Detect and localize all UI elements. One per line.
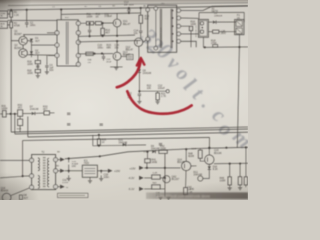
- resistor R20 100K: [35, 69, 40, 72]
- svg-text:1N4004: 1N4004: [214, 16, 223, 18]
- node bottom rail j2: [238, 46, 240, 48]
- node bus B j1: [89, 35, 91, 37]
- wire Q1 to D1: [27, 40, 31, 42]
- wire into Q1 base: [11, 40, 19, 42]
- wire out2 to IC1: [65, 170, 83, 172]
- wire loop left: [198, 13, 200, 20]
- connector arrow in2: [139, 176, 144, 180]
- wire T2 in 1: [0, 159, 30, 161]
- transformer T1 body: [148, 5, 177, 52]
- node top bus junction D: [128, 7, 130, 9]
- led D11: [198, 176, 203, 181]
- wire T1 inner: [155, 10, 157, 46]
- node long rail j3: [225, 147, 227, 149]
- wire R44 to vert: [160, 188, 165, 190]
- svg-text:1W: 1W: [88, 62, 92, 64]
- terminal T1 right 4: [177, 32, 181, 36]
- node bus C j1: [116, 40, 118, 42]
- wire D10 down: [203, 170, 209, 179]
- wire top bus to T3: [60, 10, 62, 20]
- wire R12 to Q11: [102, 22, 114, 24]
- wire Q13 emitter: [116, 60, 118, 67]
- tap T1 sec 2: [172, 17, 174, 19]
- wire long rail to right: [65, 147, 248, 159]
- transformer T1 winding secondary: [170, 9, 172, 48]
- wire rail y163.8: [214, 162, 248, 165]
- transistor Q12 BEL47: [134, 38, 142, 46]
- resistor R2 470R: [10, 22, 13, 28]
- terminal T2 left 1: [30, 158, 34, 162]
- wire R50 gnd: [239, 185, 241, 187]
- transistor Q11 BEL47: [113, 19, 121, 27]
- connector arrow out4: [108, 169, 113, 173]
- node bus3 tap: [98, 134, 100, 136]
- wire top to R13: [140, 8, 142, 15]
- wire bus4: [23, 137, 210, 140]
- resistor R50: [239, 164, 241, 177]
- node rail53 j1: [93, 53, 95, 55]
- node IC1 out j: [100, 170, 102, 172]
- node R12 junction: [102, 22, 104, 24]
- svg-text:+13V: +13V: [129, 166, 135, 170]
- wire J2 to R2: [8, 24, 10, 26]
- node R11 junction: [89, 22, 91, 24]
- wire D5 down: [138, 73, 140, 92]
- svg-text:R34: R34: [17, 128, 22, 130]
- svg-text:0.68uF: 0.68uF: [105, 15, 113, 18]
- resistor R21 2K7: [157, 91, 159, 93]
- wire T1 tap5 down: [181, 41, 197, 47]
- transformer T2 winding s: [48, 158, 50, 187]
- connector arrow in3: [139, 187, 144, 191]
- wire y145 rail: [93, 144, 146, 147]
- wire relay to D6: [208, 21, 212, 23]
- terminal T1 right 3: [177, 24, 181, 28]
- ground G5: [156, 101, 160, 103]
- wire bus1: [11, 127, 248, 132]
- wire top rail: [8, 3, 248, 6]
- wire R13 to C14: [140, 23, 142, 30]
- svg-text:B12: B12: [65, 17, 70, 19]
- tap T1 sec 1: [172, 10, 174, 12]
- capacitor C2 100n: [26, 21, 28, 22]
- svg-text:2x115V 50/60Hz 2x15V: 2x115V 50/60Hz 2x15V: [160, 26, 162, 46]
- wire bus3 drop: [92, 135, 94, 146]
- wire R14 bottom: [102, 35, 104, 36]
- node rail junction: [128, 12, 130, 14]
- terminal T1 inner top: [154, 7, 158, 11]
- capacitor C32 2u2: [68, 171, 70, 173]
- terminal T3 right 2: [76, 31, 80, 35]
- node R41 top: [146, 151, 148, 153]
- wire T2 out 1 stub: [58, 159, 60, 161]
- terminal T1 left top: [146, 8, 150, 12]
- terminal T2 right 1: [54, 158, 58, 162]
- transistor Q1 BC547: [19, 36, 28, 45]
- svg-text:+15V: +15V: [114, 169, 120, 173]
- svg-text:BD136: BD136: [214, 152, 222, 155]
- node out2 j1: [68, 170, 70, 172]
- svg-text:8.2K: 8.2K: [213, 168, 218, 171]
- svg-text:150R: 150R: [160, 148, 166, 151]
- fuse F1 element 2: [236, 28, 242, 34]
- svg-text:250V: 250V: [221, 33, 227, 35]
- wire R17 right: [219, 31, 236, 33]
- svg-text:BD135: BD135: [177, 161, 185, 164]
- wire regulator rail: [139, 90, 166, 92]
- wire fuse bottom: [238, 35, 240, 47]
- wire D1 to D2: [30, 42, 32, 51]
- wire T1 tap4 to relay: [181, 33, 199, 35]
- svg-text:IN: IN: [0, 16, 3, 18]
- ground G3: [114, 67, 118, 69]
- node C31 top: [68, 157, 70, 159]
- transistor Q16: [2, 193, 11, 202]
- svg-text:100K: 100K: [27, 72, 33, 75]
- svg-text:1.2K: 1.2K: [153, 173, 158, 175]
- transformer T1 winding primary: [159, 9, 161, 48]
- svg-text:63V: 63V: [49, 69, 54, 72]
- svg-text:100u: 100u: [98, 47, 104, 50]
- wire IC1 gnd pin: [89, 177, 91, 180]
- transistor Q13 BEL47: [113, 52, 121, 60]
- node long rail j2: [208, 147, 210, 149]
- svg-text:T2: T2: [42, 151, 45, 154]
- capacitor C3: [36, 65, 39, 67]
- wire R1 top: [10, 10, 12, 11]
- label box 1N4148: [127, 54, 134, 59]
- capacitor C19: [103, 54, 105, 57]
- ground G6: [88, 180, 92, 182]
- connector J2 AUX: [0, 21, 8, 28]
- wire Q14 collector: [185, 149, 187, 161]
- connector J1 LINE: [0, 11, 8, 18]
- connector arrow out1: [60, 157, 65, 161]
- resistor R19 100K: [37, 55, 39, 60]
- node mid vert j2: [164, 177, 166, 179]
- wire IC1 out: [97, 170, 108, 172]
- svg-text:A1: A1: [144, 4, 147, 7]
- wire R32 to D7: [23, 113, 32, 115]
- wire relay to R17: [208, 31, 212, 33]
- ground G1: [36, 75, 40, 77]
- svg-text:100R: 100R: [2, 107, 8, 110]
- wire Q11 collector: [116, 13, 118, 19]
- wire R16 down: [190, 31, 192, 48]
- wire Q2 emitter: [27, 54, 55, 57]
- svg-text:-5.1V: -5.1V: [128, 187, 134, 191]
- svg-text:BC547: BC547: [14, 47, 22, 50]
- relay K1 contact 1: [200, 22, 203, 25]
- wire rail y13.5: [61, 13, 141, 14]
- watermark dark bar bottom right: [146, 192, 248, 199]
- wire D6 to fuse: [217, 21, 237, 23]
- node bus B j2: [102, 35, 104, 37]
- wire Q14 emitter: [185, 171, 187, 188]
- resistor R31 100R: [2, 111, 6, 117]
- node R51 top: [245, 146, 247, 148]
- fuse F1 element 1: [236, 21, 242, 27]
- svg-text:100R: 100R: [220, 179, 226, 182]
- red annotation arrow head: [137, 58, 144, 66]
- capacitor C14 10n: [139, 30, 142, 32]
- transformer T2 winding p1: [38, 158, 40, 171]
- label box spec: [58, 193, 89, 197]
- wire bus2: [15, 129, 248, 134]
- transformer T2 core: [43, 157, 45, 188]
- wire R19 to R20: [37, 64, 39, 70]
- wire R35 bottom: [98, 144, 100, 147]
- resistor R44 820: [152, 185, 161, 189]
- resistor R41 100E: [146, 163, 148, 168]
- resistor R34 820: [18, 119, 23, 126]
- svg-text:2K2: 2K2: [18, 107, 23, 110]
- resistor R43 1K2: [152, 175, 161, 179]
- terminal T2 right 2: [54, 169, 58, 173]
- wire T1 tap3 to R16: [181, 25, 190, 27]
- terminal T3 right 4: [76, 53, 80, 57]
- terminal T1 right 2: [177, 16, 181, 20]
- transformer T2 winding p2: [38, 176, 40, 189]
- wire node bus y20: [8, 19, 57, 21]
- terminal T1 left bottom: [146, 37, 150, 41]
- diode D6 1N4004: [213, 21, 216, 24]
- wire R20 down: [37, 73, 39, 75]
- wire J1 to R1: [8, 13, 10, 15]
- wire Q1 to Q2: [22, 45, 24, 49]
- tap T1 sec 4: [172, 33, 174, 35]
- node Q15 coll j: [208, 147, 210, 149]
- svg-text:2.2uF: 2.2uF: [62, 182, 68, 184]
- resistor R35 10R: [98, 135, 100, 139]
- svg-text:BRUCKE 220: BRUCKE 220: [196, 25, 198, 37]
- wire main top bus: [8, 6, 249, 10]
- svg-text:1N4148: 1N4148: [143, 72, 152, 75]
- red annotation swoosh curve: [127, 91, 191, 113]
- resistor R11 100R: [86, 22, 93, 25]
- wire vertical link: [26, 10, 28, 21]
- node long rail j1: [99, 155, 101, 157]
- diode D10 zener: [208, 164, 210, 166]
- diode D5 1N4148: [138, 69, 141, 72]
- wire R48 top: [199, 149, 201, 151]
- svg-text:16V: 16V: [72, 166, 77, 168]
- node regulator junction: [138, 90, 140, 92]
- wire relay bottom: [202, 37, 204, 47]
- resistor R49 100R: [229, 164, 231, 177]
- svg-text:10K: 10K: [147, 87, 152, 90]
- relay K1 pin: [202, 27, 204, 29]
- svg-text:100E: 100E: [151, 161, 157, 164]
- regulator IC1 7805: [82, 165, 97, 177]
- svg-text:BEL47: BEL47: [123, 23, 131, 26]
- svg-text:470R: 470R: [14, 24, 20, 27]
- transistor Q15 BD136: [205, 155, 214, 164]
- wire right long vertical: [237, 47, 239, 148]
- svg-text:C0: C0: [99, 6, 102, 8]
- svg-text:1N4148: 1N4148: [30, 108, 39, 111]
- svg-text:820R: 820R: [188, 155, 194, 158]
- svg-text:820: 820: [153, 183, 158, 185]
- wire T3 to R11: [80, 22, 86, 24]
- terminal T1 inner bottom: [154, 46, 158, 50]
- svg-text:820: 820: [145, 18, 150, 21]
- wire R51 gnd: [245, 185, 247, 187]
- wire bus3: [28, 132, 248, 137]
- node in1 j2: [164, 167, 166, 169]
- wire R49 gnd: [229, 185, 231, 188]
- wire T2 in 2 left: [0, 176, 23, 178]
- wire bottom rail right: [203, 46, 248, 48]
- wire T1 tap1 to rail: [181, 6, 248, 11]
- resistor R1 1K2: [10, 11, 13, 17]
- node bus B j3: [116, 35, 118, 37]
- wire R2 top: [10, 20, 12, 22]
- svg-text:BEL47: BEL47: [126, 49, 134, 52]
- wire left long vertical: [10, 28, 12, 132]
- wire T2 out 3 stub: [58, 186, 60, 188]
- terminal T3 left 2: [55, 43, 59, 47]
- resistor R18: [213, 45, 218, 48]
- svg-text:BD433: BD433: [1, 190, 9, 193]
- resistor R48 820R: [198, 150, 202, 158]
- svg-text:1K: 1K: [96, 15, 99, 18]
- terminal T3 right 5: [76, 62, 80, 66]
- svg-text:-B: -B: [66, 187, 69, 189]
- svg-text:47uF: 47uF: [106, 61, 112, 63]
- fuse F1 body: [235, 20, 244, 35]
- node rail53 j2: [101, 52, 103, 54]
- svg-text:4K7: 4K7: [43, 108, 48, 111]
- wire T2 in 2: [23, 175, 30, 177]
- svg-text:AUX: AUX: [0, 22, 5, 25]
- wire in1 rail: [144, 167, 180, 169]
- wire D7 to R33: [35, 112, 44, 114]
- wire C14 to Q12: [140, 32, 142, 38]
- node T2 in j: [22, 175, 24, 177]
- wire R43 to vert: [160, 177, 165, 179]
- wire bus y34.6: [23, 34, 57, 36]
- node in1 j1: [146, 167, 148, 169]
- connector arrow out2: [60, 169, 65, 173]
- svg-text:B+: B+: [56, 165, 60, 167]
- node top bus junction E: [140, 7, 142, 9]
- wire R1 bottom: [10, 17, 12, 20]
- wire Q12 emitter down: [138, 46, 140, 69]
- svg-text:1uF 100V: 1uF 100V: [124, 4, 134, 6]
- wire R11 to R12: [94, 22, 96, 24]
- wire to C4: [46, 55, 48, 62]
- svg-text:.: .: [198, 93, 217, 112]
- svg-text:IN: IN: [0, 26, 3, 28]
- node rail163 j1: [229, 163, 231, 165]
- diode D2: [30, 51, 33, 54]
- relay K1 contact 2: [200, 30, 203, 33]
- svg-text:B+: B+: [57, 152, 61, 154]
- svg-text:TR1: TR1: [161, 3, 166, 5]
- transformer T2 body: [32, 155, 56, 190]
- svg-text:BC157: BC157: [172, 178, 180, 181]
- relay K1 body: [198, 19, 208, 37]
- diode D8: [19, 195, 22, 200]
- node top bus junction A: [10, 9, 12, 11]
- capacitor C13 1uF 100V: [128, 8, 130, 9]
- terminal open node: [166, 90, 169, 93]
- ground G7: [158, 196, 162, 198]
- resistor R51: [245, 147, 247, 176]
- node top bus junction B: [26, 9, 28, 11]
- node bottom rail j1: [204, 46, 206, 48]
- wire bus4 left drop: [22, 141, 24, 177]
- resistor R13 820: [139, 15, 143, 23]
- capacitor C41: [160, 189, 162, 193]
- wire Q14 to Q15 area: [191, 165, 197, 167]
- terminal T3 right 1: [76, 21, 80, 25]
- resistor R45 1K: [184, 188, 188, 195]
- terminal T3 left 1: [55, 31, 59, 35]
- wire loop right: [243, 12, 245, 22]
- wire in3 to R44: [144, 188, 152, 190]
- wire T1 tap2 to relay: [181, 17, 199, 19]
- svg-text:100R: 100R: [87, 15, 93, 18]
- wire bus C: [78, 41, 140, 42]
- wire D2 down: [30, 55, 32, 57]
- svg-text:2A: 2A: [237, 17, 240, 20]
- wire R32 to R34: [19, 116, 21, 119]
- terminal T3 right 3: [76, 40, 80, 44]
- wire bus B: [78, 35, 135, 36]
- transformer T3 core: [65, 22, 67, 65]
- ground G2: [45, 71, 49, 73]
- diode D1: [30, 39, 33, 42]
- wire Q15 collector: [208, 148, 210, 155]
- connector arrow in1: [139, 166, 144, 170]
- terminal T2 left 3: [30, 185, 34, 189]
- wire R31 to R32: [6, 113, 17, 115]
- wire T3 left stub 3: [48, 55, 55, 57]
- tap T1 sec 5: [172, 40, 174, 42]
- resistor R32 2K2: [18, 110, 23, 117]
- svg-text:BC547: BC547: [14, 33, 22, 36]
- connector arrow out3: [60, 185, 65, 189]
- node rail163 j2: [239, 162, 241, 164]
- wire row left: [0, 113, 2, 115]
- terminal T1 right 5: [177, 39, 181, 43]
- svg-text:B1: B1: [85, 6, 88, 8]
- diode D9: [152, 150, 155, 153]
- svg-text:68K: 68K: [107, 47, 112, 50]
- terminal T2 right 3: [54, 185, 58, 189]
- wire R33 right: [50, 112, 55, 114]
- resistor R33 4K7: [44, 111, 50, 115]
- resistor R17 7K5: [213, 30, 219, 33]
- svg-text:www.320volt.com elektronik dev: www.320volt.com elektronik devre: [157, 195, 210, 199]
- diode D7 1N4148: [32, 112, 35, 115]
- red annotation arrow shaft: [117, 60, 141, 88]
- wire loop top: [199, 11, 244, 13]
- wire Q1 top: [23, 35, 25, 37]
- wire Q13 right: [121, 55, 126, 57]
- svg-text:7815: 7815: [84, 163, 90, 165]
- node top bus junction C: [60, 8, 62, 10]
- wire Q16 to T2: [11, 188, 30, 196]
- capacitor C9 1u: [88, 29, 91, 31]
- ground G4: [137, 100, 141, 102]
- wire Q12 to T1: [143, 39, 148, 42]
- svg-text:2.7K: 2.7K: [161, 95, 166, 98]
- resistor R42: [159, 150, 168, 153]
- svg-text:100R: 100R: [191, 149, 197, 151]
